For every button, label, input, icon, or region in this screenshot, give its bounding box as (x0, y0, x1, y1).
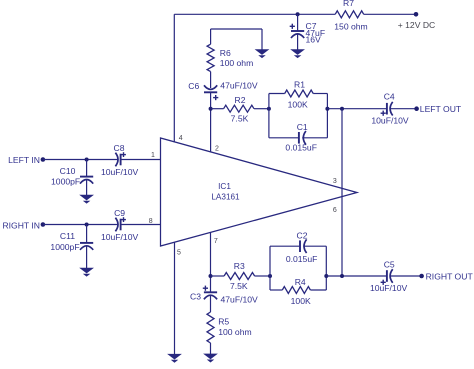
wire: lower box bottom left lead (270, 289, 282, 291)
wire: lower box left vertical (269, 246, 271, 290)
plus C8 (121, 154, 126, 156)
svg-text:5: 5 (177, 250, 181, 257)
capacitor C3 (204, 292, 217, 299)
svg-text:7.5K: 7.5K (230, 281, 248, 291)
svg-text:C10: C10 (60, 166, 76, 176)
svg-text:100K: 100K (288, 100, 308, 110)
wire: box bottom left lead (269, 137, 298, 139)
capacitor C4 (387, 102, 393, 116)
svg-text:1: 1 (151, 152, 155, 159)
ground below pin5 (168, 354, 180, 362)
svg-text:LEFT OUT: LEFT OUT (420, 104, 462, 114)
node feedback box left (pin2 net) (267, 107, 271, 111)
wire: lower box right vertical (325, 246, 327, 290)
junction R2/C6/pin2 (209, 107, 213, 111)
node lower box left (pin7 net) (268, 274, 272, 278)
resistor R4 (282, 287, 310, 294)
ground below C10 (80, 195, 92, 203)
svg-text:RIGHT OUT: RIGHT OUT (426, 272, 474, 282)
ground below C11 (80, 268, 92, 276)
plus C7 (290, 25, 295, 27)
svg-text:3: 3 (333, 178, 337, 185)
svg-text:R2: R2 (235, 95, 246, 105)
node LEFT OUT terminal (414, 106, 419, 111)
svg-text:16V: 16V (306, 35, 322, 45)
svg-text:C2: C2 (297, 231, 308, 241)
svg-text:1000pF: 1000pF (50, 242, 79, 252)
svg-text:R5: R5 (218, 317, 229, 327)
wire: R3 to lower box (255, 275, 270, 277)
capacitor C5 (387, 269, 393, 283)
ground below C7 (291, 50, 303, 58)
wire: top rail right segment (364, 13, 416, 15)
wire: R6 top loop horizontal (211, 28, 262, 30)
wire: box left vertical (268, 94, 270, 138)
svg-text:C4: C4 (384, 92, 395, 102)
svg-text:100 ohm: 100 ohm (220, 58, 253, 68)
wire: lower box top right lead (303, 245, 326, 247)
svg-text:R4: R4 (295, 277, 306, 287)
wire: pin5 to ground (174, 242, 176, 354)
capacitor C2 (300, 239, 307, 253)
wire: box to C5 (326, 275, 386, 277)
svg-text:1000pF: 1000pF (51, 176, 80, 186)
capacitor C9 (115, 218, 120, 232)
svg-text:7: 7 (214, 238, 218, 245)
svg-text:RIGHT IN: RIGHT IN (2, 220, 40, 230)
svg-text:10uF/10V: 10uF/10V (371, 115, 409, 125)
plus C5 (381, 281, 386, 283)
capacitor C6 (204, 85, 217, 92)
wire: vertical net pin3 to pin6 (341, 109, 343, 276)
svg-text:C9: C9 (114, 208, 125, 218)
svg-text:10uF/10V: 10uF/10V (370, 283, 408, 293)
node +12V DC terminal (414, 12, 419, 17)
junction C11 tap (85, 223, 89, 227)
svg-text:47uF/10V: 47uF/10V (220, 80, 258, 90)
wire: pin7 down to C3 node (210, 232, 212, 292)
wire: R5 to ground (210, 343, 212, 354)
wire: box top right lead (313, 93, 327, 95)
svg-text:C6: C6 (188, 81, 199, 91)
capacitor C10 (80, 177, 93, 184)
svg-text:+ 12V DC: + 12V DC (398, 20, 436, 30)
svg-text:C8: C8 (114, 143, 125, 153)
svg-text:IC1: IC1 (218, 182, 231, 191)
plus C4 (381, 112, 386, 114)
svg-text:R6: R6 (220, 48, 231, 58)
wire: C4 to LEFT OUT (390, 108, 416, 110)
ground right of R6 (256, 50, 268, 58)
capacitor C11 lead (86, 225, 88, 243)
resistor R2 (224, 105, 254, 112)
svg-text:100 ohm: 100 ohm (218, 327, 251, 337)
svg-text:0.015uF: 0.015uF (285, 142, 317, 152)
svg-text:150 ohm: 150 ohm (334, 21, 367, 31)
op-amp IC1 LA3161 triangle (161, 138, 358, 246)
wire: R3 left lead (211, 275, 225, 277)
junction C7/top-rail (296, 12, 300, 16)
junction pin3 vertical (340, 107, 344, 111)
junction C10 tap (85, 158, 89, 162)
wire: box right to output (327, 108, 386, 110)
wire: R6 top lead (210, 29, 212, 44)
resistor R3 (224, 273, 255, 280)
capacitor C7 (291, 31, 304, 38)
wire: box right vertical (326, 94, 328, 138)
wire: C5 to RIGHT OUT (390, 275, 421, 277)
svg-text:100K: 100K (291, 296, 311, 306)
capacitor C10 lead (86, 160, 88, 177)
resistor R5 (207, 312, 214, 343)
svg-text:6: 6 (333, 207, 337, 214)
svg-text:LA3161: LA3161 (211, 193, 240, 202)
wire: R6 to C6 (210, 72, 212, 88)
svg-text:47uF/10V: 47uF/10V (221, 294, 259, 304)
svg-text:2: 2 (215, 146, 219, 153)
junction pin6 vertical (340, 274, 344, 278)
svg-text:R3: R3 (234, 261, 245, 271)
node RIGHT IN terminal (41, 222, 46, 227)
svg-text:7.5K: 7.5K (231, 114, 249, 124)
plus C6 (213, 97, 218, 99)
wire: RIGHT IN to C9 (43, 224, 118, 226)
ground below R5 (204, 354, 216, 362)
svg-text:C5: C5 (384, 260, 395, 270)
wire: C7 top lead (297, 14, 299, 30)
wire: loop down to ground (261, 29, 263, 50)
node lower box right (pin6 net) (324, 274, 328, 278)
svg-text:R1: R1 (294, 80, 305, 90)
svg-text:C11: C11 (60, 231, 75, 241)
svg-text:LEFT IN: LEFT IN (8, 155, 40, 165)
wire: lower box bottom right lead (310, 289, 326, 291)
wire: lower box top left lead (270, 245, 299, 247)
svg-text:4: 4 (179, 135, 183, 142)
capacitor C8 (115, 153, 120, 167)
svg-text:0.015uF: 0.015uF (286, 254, 318, 264)
svg-text:C1: C1 (297, 122, 308, 132)
wire: +12V top rail left segment (174, 13, 335, 15)
wire: box top left lead (269, 93, 285, 95)
wire: C7 bottom lead (297, 34, 299, 50)
svg-text:10uF/10V: 10uF/10V (101, 167, 139, 177)
node feedback box right (pin3 net) (325, 107, 329, 111)
resistor R1 (285, 90, 314, 97)
wire: LEFT IN to C8 (43, 159, 118, 161)
wire: C8 to pin1 (121, 159, 161, 161)
svg-text:C3: C3 (190, 291, 201, 301)
wire: R2 left lead (211, 108, 224, 110)
svg-text:10uF/10V: 10uF/10V (101, 232, 139, 242)
capacitor C1 (299, 131, 306, 145)
svg-text:R7: R7 (343, 0, 354, 8)
wire: C9 to pin8 (121, 224, 161, 226)
node LEFT IN terminal (41, 157, 46, 162)
node RIGHT OUT terminal (419, 274, 424, 279)
wire: C6 down to pin2 node and triangle (210, 92, 212, 152)
resistor R6 (207, 44, 214, 71)
wire: box bottom right lead (302, 137, 327, 139)
wire: R2 to feedback box (254, 108, 269, 110)
wire: pin4 from rail to triangle (173, 14, 175, 142)
wire: C11 to ground (86, 246, 88, 268)
resistor R7 (335, 11, 364, 18)
svg-text:8: 8 (149, 218, 153, 225)
junction R3/C3/pin7 (209, 274, 213, 278)
capacitor C11 (80, 243, 93, 250)
plus C3 (203, 287, 208, 289)
wire: C10 to ground (86, 180, 88, 195)
plus C9 (121, 219, 126, 221)
wire: C3 to R5 (210, 296, 212, 313)
